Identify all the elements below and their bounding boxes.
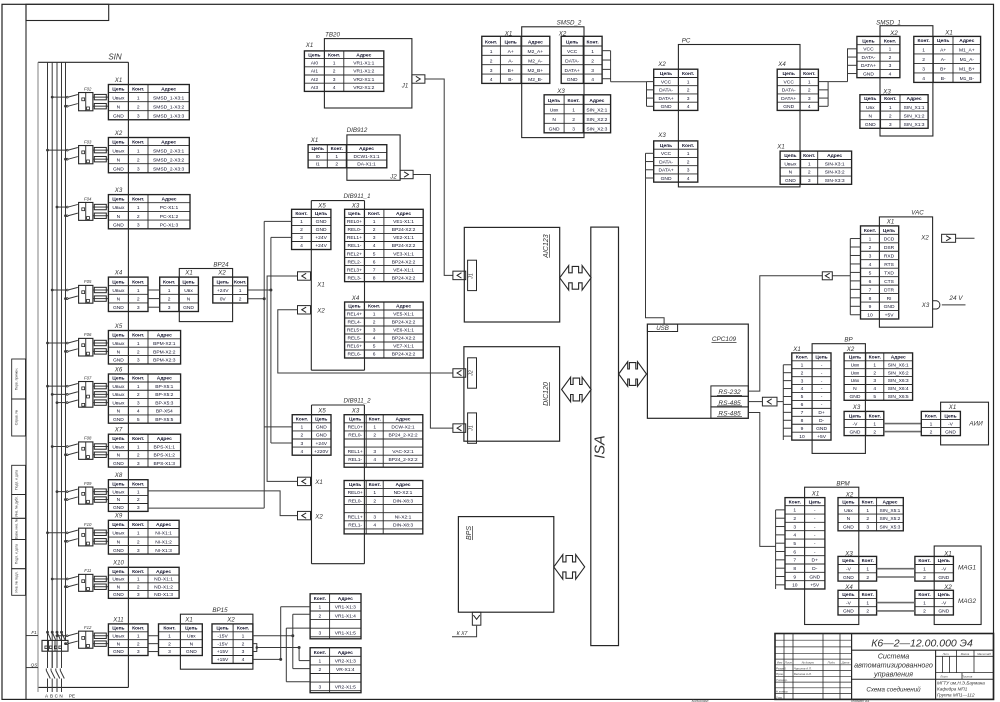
svg-text:X2: X2 [657, 61, 666, 68]
svg-text:A-: A- [941, 57, 946, 63]
svg-text:3: 3 [922, 67, 925, 73]
svg-text:Конт.: Конт. [368, 211, 381, 217]
VAC connector X2 output [920, 234, 974, 242]
block BP [812, 337, 865, 454]
svg-text:VE3-X1:1: VE3-X1:1 [393, 251, 414, 257]
arrow AIC123-ISA [560, 266, 591, 291]
block CPC109 [647, 324, 748, 418]
svg-text:Цепь: Цепь [112, 481, 124, 487]
svg-text:Цепь: Цепь [112, 626, 124, 632]
svg-text:AIC123: AIC123 [543, 234, 550, 258]
svg-text:7: 7 [801, 410, 804, 416]
svg-text:Цепь: Цепь [217, 280, 229, 286]
svg-text:BPM-X2:1: BPM-X2:1 [153, 341, 176, 347]
svg-text:4: 4 [490, 77, 493, 83]
svg-text:1: 1 [137, 341, 140, 347]
svg-text:VR1-X1:4: VR1-X1:4 [335, 613, 356, 619]
svg-text:Масса: Масса [961, 652, 970, 656]
svg-text:1: 1 [137, 577, 140, 583]
svg-text:F07: F07 [84, 375, 92, 380]
svg-text:GND: GND [567, 77, 578, 83]
svg-text:N: N [117, 157, 121, 163]
svg-text:Uвых: Uвых [112, 531, 125, 537]
power bus lines A B C N PE [38, 62, 66, 692]
svg-text:PE: PE [69, 694, 75, 699]
svg-text:2: 2 [572, 117, 575, 123]
svg-text:VR2-X1:2: VR2-X1:2 [353, 85, 374, 91]
svg-text:BP24_2-X2:2: BP24_2-X2:2 [388, 457, 417, 463]
svg-text:3: 3 [808, 178, 811, 184]
svg-text:GND: GND [661, 104, 672, 110]
svg-text:Конт.: Конт. [163, 626, 176, 632]
svg-text:Uвх: Uвх [550, 108, 559, 114]
SMSD_2 connector X2 [561, 36, 602, 83]
svg-text:X3: X3 [657, 132, 666, 139]
svg-text:+24V: +24V [217, 288, 229, 294]
block BP24 [179, 261, 232, 321]
svg-text:GND: GND [113, 358, 124, 364]
svg-text:2: 2 [873, 429, 876, 435]
svg-text:2: 2 [137, 349, 140, 355]
svg-text:Конт.: Конт. [862, 592, 875, 598]
svg-text:+24V: +24V [316, 441, 328, 447]
svg-text:X2: X2 [114, 130, 123, 137]
circuit breaker F10 [46, 522, 108, 546]
svg-text:F1: F1 [31, 630, 37, 635]
svg-text:Конт.: Конт. [331, 146, 344, 152]
svg-text:Адрес: Адрес [161, 86, 176, 92]
svg-text:REL1-: REL1- [348, 457, 362, 463]
svg-text:SIN-X3:1: SIN-X3:1 [825, 161, 845, 167]
svg-text:Кафедра МП1: Кафедра МП1 [937, 686, 968, 691]
svg-text:2: 2 [168, 641, 171, 647]
svg-text:1: 1 [137, 384, 140, 390]
svg-text:Адрес: Адрес [161, 139, 176, 145]
circuit breaker F11 [51, 568, 109, 591]
svg-text:VE5-X1:1: VE5-X1:1 [393, 312, 414, 318]
wire RS-485 to BPM X1 [748, 413, 775, 547]
svg-text:4: 4 [922, 76, 925, 82]
svg-text:2: 2 [889, 113, 892, 119]
svg-text:Перв. примен.: Перв. примен. [15, 368, 19, 391]
svg-text:DIB912: DIB912 [347, 127, 368, 134]
svg-text:X2: X2 [316, 308, 325, 315]
svg-text:NI-X1:2: NI-X1:2 [155, 539, 172, 545]
connector table X10 [108, 567, 179, 598]
svg-text:GND: GND [113, 113, 124, 119]
svg-text:X4: X4 [114, 270, 123, 277]
svg-text:3: 3 [873, 378, 876, 384]
svg-text:BP15: BP15 [212, 607, 228, 614]
svg-text:Лист: Лист [939, 675, 948, 679]
svg-text:REL0+: REL0+ [348, 425, 363, 431]
svg-text:SMSD_1-X3:3: SMSD_1-X3:3 [153, 113, 185, 119]
svg-text:DSR: DSR [884, 245, 895, 251]
svg-text:1: 1 [873, 421, 876, 427]
svg-text:Конт.: Конт. [132, 626, 145, 632]
svg-text:3: 3 [137, 223, 140, 229]
svg-text:Конт.: Конт. [132, 522, 145, 528]
svg-text:Конт.: Конт. [132, 436, 145, 442]
svg-text:GND: GND [865, 122, 876, 128]
svg-text:Конт.: Конт. [132, 86, 145, 92]
svg-text:F03: F03 [84, 139, 92, 144]
svg-text:AI1: AI1 [311, 69, 319, 75]
svg-text:1: 1 [318, 659, 321, 665]
svg-text:Конт.: Конт. [314, 596, 327, 602]
svg-text:X2: X2 [226, 617, 235, 624]
svg-text:2: 2 [137, 214, 140, 220]
svg-text:Uвых: Uвых [112, 577, 125, 583]
svg-text:1: 1 [591, 49, 594, 55]
svg-text:9: 9 [793, 574, 796, 580]
svg-text:GND: GND [945, 429, 956, 435]
svg-text:DATA+: DATA+ [781, 96, 796, 102]
svg-text:REL0+: REL0+ [347, 219, 362, 225]
svg-text:Конт.: Конт. [132, 569, 145, 575]
svg-text:Цепь: Цепь [815, 355, 827, 361]
svg-text:BPS-X1:2: BPS-X1:2 [154, 453, 176, 459]
svg-text:D-: D- [819, 418, 825, 424]
svg-text:REL6+: REL6+ [347, 344, 362, 350]
svg-text:3: 3 [373, 328, 376, 334]
svg-text:7: 7 [793, 558, 796, 564]
svg-text:1: 1 [318, 605, 321, 611]
svg-text:DATA+: DATA+ [861, 63, 876, 69]
svg-text:NI-X1:1: NI-X1:1 [155, 531, 172, 537]
svg-text:DATA-: DATA- [782, 88, 796, 94]
svg-text:Адрес: Адрес [882, 499, 897, 505]
svg-text:DIN-X8:3: DIN-X8:3 [393, 523, 413, 529]
circuit breaker F03 [46, 139, 108, 163]
svg-text:BP24_2-X2:2: BP24_2-X2:2 [388, 433, 417, 439]
svg-text:N: N [117, 539, 121, 545]
svg-text:Цепь: Цепь [504, 40, 516, 46]
svg-text:+5V: +5V [810, 583, 820, 589]
svg-text:BP-X5:5: BP-X5:5 [155, 417, 173, 423]
svg-text:REL2-: REL2- [348, 259, 362, 265]
svg-text:Цепь: Цепь [842, 558, 854, 564]
svg-text:X1: X1 [944, 30, 952, 37]
svg-text:2: 2 [137, 104, 140, 110]
wire RS-485 to BP X1 [748, 397, 783, 406]
svg-text:3: 3 [373, 449, 376, 455]
svg-text:2: 2 [801, 370, 804, 376]
svg-text:Конт.: Конт. [132, 196, 145, 202]
svg-text:4: 4 [333, 85, 336, 91]
svg-text:SIN: SIN [108, 53, 122, 62]
DIB911_1 connector X5 [292, 209, 331, 249]
DIC120 connector J2 [453, 358, 477, 388]
svg-text:B: B [50, 694, 53, 699]
svg-text:Uвх: Uвх [851, 362, 860, 368]
svg-text:X2: X2 [314, 513, 323, 520]
svg-text:Конт.: Конт. [864, 228, 877, 234]
svg-text:GND: GND [113, 305, 124, 311]
svg-text:X5: X5 [114, 323, 123, 330]
svg-text:Подп.: Подп. [828, 661, 836, 665]
svg-text:4: 4 [793, 533, 796, 539]
PC connector X1 [780, 151, 852, 184]
svg-text:DATA+: DATA+ [658, 168, 673, 174]
svg-text:F05: F05 [84, 279, 92, 284]
PC connector X4 [777, 69, 818, 110]
svg-text:ND-X1:1: ND-X1:1 [154, 577, 173, 583]
connector table X3 [108, 195, 190, 229]
svg-text:ND-X1:3: ND-X1:3 [154, 592, 173, 598]
wire SMSD_2 X2 to PC X2 [602, 51, 646, 82]
svg-text:Пров.: Пров. [776, 672, 784, 676]
svg-text:+5V: +5V [817, 434, 827, 440]
svg-text:Адрес: Адрес [907, 96, 922, 102]
TB20 connector J1 [401, 75, 425, 90]
svg-text:N: N [117, 453, 121, 459]
svg-text:SIN_X1:3: SIN_X1:3 [904, 122, 925, 128]
svg-text:VR2-X1:5: VR2-X1:5 [335, 684, 356, 690]
svg-text:Цепь: Цепь [862, 38, 874, 44]
svg-text:9: 9 [869, 304, 872, 310]
svg-text:REL1+: REL1+ [348, 515, 363, 521]
svg-text:Адрес: Адрес [157, 333, 172, 339]
svg-text:Цепь: Цепь [112, 569, 124, 575]
svg-text:B+: B+ [940, 67, 946, 73]
wires BP15 X2 to VR tables [253, 607, 310, 682]
svg-text:X10: X10 [112, 560, 124, 567]
svg-text:VR-X1:4: VR-X1:4 [336, 667, 355, 673]
svg-text:GND: GND [863, 71, 874, 77]
svg-text:Конт.: Конт. [132, 376, 145, 382]
svg-text:X2: X2 [217, 270, 226, 277]
svg-text:2: 2 [168, 297, 171, 303]
svg-text:Взам. инв. №: Взам. инв. № [15, 518, 19, 539]
svg-text:Конт.: Конт. [884, 38, 897, 44]
svg-text:REL1-: REL1- [348, 243, 362, 249]
svg-text:1: 1 [490, 49, 493, 55]
svg-text:X5: X5 [317, 202, 326, 209]
wires BPM X4 to MAG2 [877, 603, 915, 611]
svg-text:Цепь: Цепь [849, 413, 861, 419]
svg-text:X6: X6 [114, 366, 123, 373]
svg-text:Адрес: Адрес [396, 417, 411, 423]
svg-text:B+: B+ [508, 68, 514, 74]
svg-text:Конт.: Конт. [925, 413, 938, 419]
svg-text:PC-X1:2: PC-X1:2 [160, 214, 179, 220]
svg-text:1: 1 [572, 108, 575, 114]
svg-text:REL5+: REL5+ [347, 328, 362, 334]
svg-text:1: 1 [889, 105, 892, 111]
svg-text:1: 1 [137, 95, 140, 101]
svg-text:Листов: Листов [961, 675, 973, 679]
svg-text:Адрес: Адрес [157, 436, 172, 442]
svg-text:A+: A+ [508, 49, 514, 55]
svg-text:REL0-: REL0- [348, 227, 362, 233]
svg-text:N: N [552, 117, 556, 123]
bottom margin text [692, 699, 870, 702]
arrow BPS-ISA [554, 555, 585, 580]
svg-text:Конт.: Конт. [234, 280, 247, 286]
svg-text:Адрес: Адрес [156, 569, 171, 575]
margin box Инв. № подл. [12, 569, 26, 596]
main breaker F1 [26, 630, 69, 668]
connector table X6 [108, 374, 180, 423]
svg-text:BP24-X2:2: BP24-X2:2 [392, 352, 416, 358]
svg-text:Адрес: Адрес [338, 596, 353, 602]
svg-text:-V: -V [846, 567, 852, 573]
svg-text:Схема соединений: Схема соединений [866, 687, 921, 694]
svg-text:REL2+: REL2+ [347, 251, 362, 257]
svg-text:2: 2 [137, 641, 140, 647]
svg-text:-V: -V [941, 567, 947, 573]
svg-text:VAC: VAC [911, 210, 924, 217]
svg-text:Конт.: Конт. [132, 279, 145, 285]
svg-text:1: 1 [373, 490, 376, 496]
svg-text:Цепь: Цепь [312, 146, 324, 152]
organization [937, 680, 985, 697]
svg-text:GND: GND [113, 548, 124, 554]
svg-text:SIN_X6:4: SIN_X6:4 [888, 386, 909, 392]
svg-text:VE6-X1:1: VE6-X1:1 [393, 328, 414, 334]
svg-text:REL0-: REL0- [348, 498, 362, 504]
svg-text:2: 2 [300, 227, 303, 233]
svg-text:Цепь: Цепь [938, 592, 950, 598]
SMSD_1 connector X2 [857, 36, 900, 77]
svg-text:Конт.: Конт. [368, 304, 381, 310]
svg-text:2: 2 [687, 88, 690, 94]
svg-text:X8: X8 [114, 472, 123, 479]
DIB911_2 connector X5 [292, 415, 331, 456]
svg-text:Uвых: Uвых [112, 444, 125, 450]
svg-text:5: 5 [873, 394, 876, 400]
svg-text:GND: GND [816, 426, 827, 432]
VAC connector X1 [861, 226, 899, 319]
svg-text:Адрес: Адрес [338, 650, 353, 656]
svg-text:F02: F02 [84, 86, 92, 91]
connector table X4 [108, 277, 148, 311]
svg-text:Цепь: Цепь [348, 211, 360, 217]
svg-text:6: 6 [869, 279, 872, 285]
svg-text:2: 2 [242, 641, 245, 647]
svg-text:1: 1 [137, 148, 140, 154]
wire RS-232 to VAC [748, 272, 850, 391]
svg-text:BP-X54: BP-X54 [156, 409, 173, 415]
svg-text:REL4-: REL4- [348, 320, 362, 326]
svg-text:Система: Система [878, 652, 910, 661]
top-left stamp box [26, 4, 109, 20]
svg-text:Адрес: Адрес [589, 98, 604, 104]
svg-text:2: 2 [923, 609, 926, 615]
svg-text:Дата: Дата [841, 661, 850, 665]
svg-text:SIN_X5:3: SIN_X5:3 [879, 525, 900, 531]
svg-text:N: N [868, 113, 872, 119]
svg-text:1: 1 [801, 362, 804, 368]
svg-text:Цепь: Цепь [112, 436, 124, 442]
svg-text:1: 1 [333, 61, 336, 67]
PC X3 stub ladder and wire to USB [646, 153, 665, 324]
svg-text:BP24-X2:2: BP24-X2:2 [392, 320, 416, 326]
svg-text:BP-X5:2: BP-X5:2 [155, 392, 173, 398]
svg-text:B-: B- [941, 76, 946, 82]
svg-text:N: N [117, 297, 121, 303]
svg-text:X1: X1 [114, 77, 122, 84]
svg-text:X1: X1 [316, 282, 324, 289]
block BPS [458, 517, 553, 613]
svg-text:1: 1 [137, 489, 140, 495]
circuit breaker F02 [51, 86, 109, 110]
MAG2 connector X2 [915, 590, 954, 615]
svg-text:Адрес: Адрес [528, 40, 543, 46]
svg-text:N: N [117, 104, 121, 110]
circuit breaker F09 [56, 481, 109, 504]
svg-text:+24V: +24V [315, 235, 327, 241]
DIB911_2 connector X1 [298, 477, 323, 486]
svg-text:Uвх: Uвх [187, 633, 196, 639]
svg-text:SIN_X1:1: SIN_X1:1 [904, 105, 925, 111]
svg-text:1: 1 [869, 236, 872, 242]
svg-text:3: 3 [300, 235, 303, 241]
svg-text:автоматизированного: автоматизированного [854, 661, 933, 670]
svg-text:1: 1 [239, 288, 242, 294]
svg-text:REL4+: REL4+ [347, 312, 362, 318]
svg-text:D-: D- [812, 566, 818, 572]
svg-text:PC: PC [682, 38, 691, 45]
svg-text:GND: GND [938, 609, 949, 615]
svg-text:Адрес: Адрес [157, 376, 172, 382]
svg-text:M2_A-: M2_A- [528, 58, 543, 64]
svg-text:1: 1 [301, 425, 304, 431]
svg-text:SIN_X6:1: SIN_X6:1 [888, 362, 909, 368]
svg-text:SMSD_1-X3:2: SMSD_1-X3:2 [153, 104, 185, 110]
svg-text:GND: GND [113, 417, 124, 423]
svg-text:Цепь: Цепь [842, 592, 854, 598]
svg-text:GND: GND [783, 104, 794, 110]
svg-text:VE7-X1:1: VE7-X1:1 [393, 344, 414, 350]
svg-text:N: N [117, 497, 121, 503]
svg-text:F08: F08 [84, 436, 92, 441]
svg-text:GND: GND [186, 649, 197, 655]
svg-text:GND: GND [850, 394, 861, 400]
svg-text:SIN-X3:3: SIN-X3:3 [825, 178, 845, 184]
svg-text:BPS-X1:1: BPS-X1:1 [154, 444, 176, 450]
block SMSD_1 [876, 19, 933, 136]
svg-text:24 V: 24 V [948, 295, 963, 302]
DIB911_2 connector X1 table [344, 481, 423, 534]
svg-text:8: 8 [793, 566, 796, 572]
connector table X2 [108, 138, 189, 173]
svg-text:F06: F06 [84, 332, 92, 337]
svg-text:BP24-X2:2: BP24-X2:2 [392, 259, 416, 265]
margin box Справ. № [12, 399, 26, 436]
svg-text:7: 7 [373, 267, 376, 273]
BP connector X3 [844, 411, 884, 435]
svg-text:GND: GND [785, 178, 796, 184]
svg-text:Цепь: Цепь [784, 153, 796, 159]
svg-text:X4: X4 [777, 61, 786, 68]
block TB20 [324, 31, 412, 108]
svg-text:Адрес: Адрес [396, 211, 411, 217]
svg-text:X5: X5 [317, 407, 326, 414]
svg-text:Адрес: Адрес [396, 482, 411, 488]
svg-text:1: 1 [923, 600, 926, 606]
svg-text:I0: I0 [316, 154, 320, 160]
svg-text:MAG1: MAG1 [958, 565, 977, 572]
svg-text:Конт.: Конт. [869, 413, 882, 419]
svg-text:X11: X11 [112, 616, 123, 623]
SMSD_2 connector X3 [544, 95, 611, 133]
wires BPM X3 to MAG1 [877, 569, 915, 577]
BPM connector X1 [785, 498, 825, 589]
block DIB912 [347, 127, 400, 180]
phase labels A B C N PE [45, 694, 75, 699]
